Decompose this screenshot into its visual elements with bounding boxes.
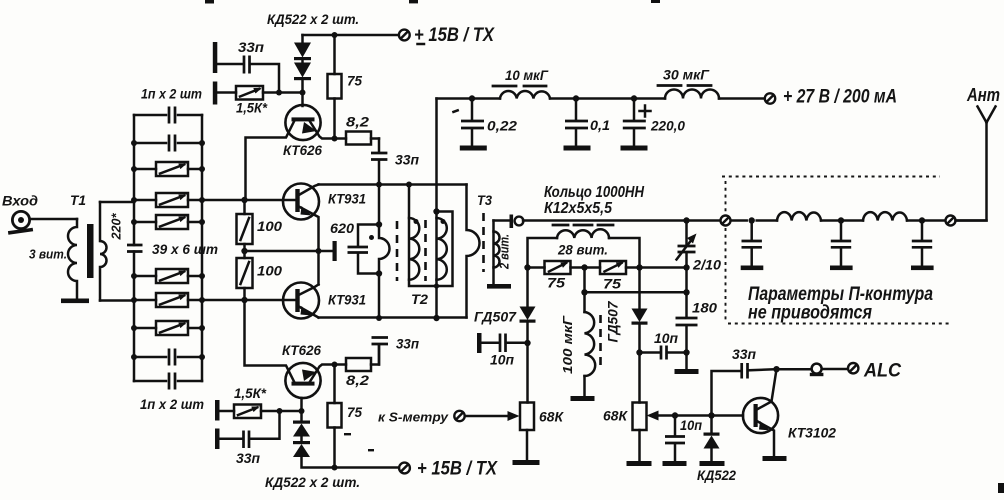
svg-text:33п: 33п (236, 451, 261, 466)
transformer T3 secondary 2 вит. (492, 221, 495, 284)
resistor 100 upper (243, 200, 246, 214)
dashed border P-network left (725, 181, 727, 320)
node dot collector КТ626 top (332, 136, 338, 142)
svg-text:0,1: 0,1 (590, 118, 610, 133)
diode VD4 КД522 bottom (300, 437, 303, 442)
svg-text:КТ3102: КТ3102 (788, 426, 836, 441)
node dots at КТ626 base (276, 90, 282, 96)
capacitor 620 (358, 225, 379, 247)
capacitor 10п (base to ground) (672, 412, 678, 418)
stub terminal bar top-left 2 (213, 82, 218, 105)
svg-text:220*: 220* (110, 212, 124, 240)
junction dots on bank rails (131, 140, 205, 360)
capacitor 220* in left rail (127, 245, 143, 252)
trimmer resistor bank row 6 (134, 275, 202, 278)
scan speck marks (409, 0, 418, 3)
resistor 75 bottom (333, 365, 336, 404)
capacitor bank row 10 (1п) (134, 380, 202, 383)
choke L1 10 мкГ (500, 91, 550, 98)
svg-text:Вход: Вход (2, 193, 38, 209)
terminal +27V (765, 93, 775, 103)
diode VD3 КД522 bottom (300, 411, 303, 421)
trimmer resistor 75 left (528, 266, 545, 269)
dashed border P-network top (722, 176, 940, 178)
collector rail bottom (319, 316, 467, 319)
node dot collector КТ626 bottom (332, 362, 338, 368)
svg-text:КД522 x 2 шт.: КД522 x 2 шт. (267, 11, 359, 27)
svg-text:1,5К*: 1,5К* (234, 386, 267, 401)
svg-text:1п x 2 шт: 1п x 2 шт (141, 87, 202, 102)
svg-text:+ 15В / TX: + 15В / TX (414, 25, 495, 46)
connector at T3 output (510, 215, 514, 229)
connector XW1 input socket (8, 211, 33, 234)
connector pin ALC (812, 364, 822, 374)
svg-text:33п: 33п (396, 337, 420, 352)
diode VD5 ГД507 left (526, 268, 529, 308)
svg-text:ГД507: ГД507 (606, 300, 621, 343)
svg-text:Т1: Т1 (70, 192, 86, 208)
capacitor 33п ALC (712, 371, 741, 416)
collector rail top (319, 183, 467, 186)
svg-text:75: 75 (547, 276, 566, 291)
svg-text:100: 100 (257, 264, 283, 279)
capacitor bank row 1 (1п) (134, 114, 202, 117)
scan mark top edge (205, 0, 214, 4)
suppressor winding 28 вит. with 75 trimmers (528, 238, 558, 268)
wire input to T1 (30, 218, 77, 221)
svg-text:КТ626: КТ626 (282, 343, 321, 358)
transformer T1 secondary winding (100, 202, 107, 301)
trimmer capacitor 2/10 (683, 217, 689, 223)
svg-text:75: 75 (347, 74, 362, 89)
wire T1 secondary to capacitor bank (100, 202, 134, 301)
resistor 100 lower (243, 244, 246, 258)
transistor VT4 КТ626 bottom (285, 363, 320, 398)
svg-text:3 вит.: 3 вит. (29, 247, 67, 262)
svg-text:Кольцо 1000НН: Кольцо 1000НН (544, 184, 644, 201)
resistor 75 top (333, 35, 336, 74)
svg-text:Т3: Т3 (477, 192, 492, 208)
capacitor C2 P-network (838, 217, 844, 223)
capacitor 10п (diode to 180 node) (636, 349, 642, 355)
transistor VT5 КТ3102 (743, 398, 778, 433)
potentiometer 68К left (526, 343, 529, 403)
wiper arrow into 68К right (657, 414, 743, 417)
diode VD2 КД522 top (301, 60, 304, 63)
svg-text:10п: 10п (490, 353, 515, 368)
diode VD7 КД522 right (708, 412, 714, 418)
capacitor 180 (685, 268, 688, 318)
svg-text:33п: 33п (732, 347, 757, 362)
capacitor 33п (rail to node) bottom (372, 338, 389, 345)
capacitor 220,0 polarized (631, 95, 637, 101)
svg-text:28 вит.: 28 вит. (557, 243, 608, 258)
wire to antenna (956, 123, 987, 221)
svg-text:100 мкГ: 100 мкГ (560, 315, 575, 374)
svg-text:33п: 33п (238, 40, 265, 55)
wire middle link (581, 289, 587, 295)
svg-text:8,2: 8,2 (346, 115, 370, 130)
svg-text:68К: 68К (539, 410, 565, 425)
capacitor bank row 2 (1п) (134, 142, 202, 145)
svg-text:33п: 33п (395, 153, 420, 168)
svg-text:КТ931: КТ931 (328, 192, 366, 207)
svg-text:10 мкГ: 10 мкГ (505, 68, 549, 83)
svg-text:К12х5х5,5: К12х5х5,5 (544, 200, 613, 217)
wire to +15V bottom rail (302, 457, 400, 468)
transformer T1 core (87, 224, 94, 278)
transistor VT1 КТ626 top (285, 105, 320, 140)
stub terminal bar bottom-left 1 (215, 400, 220, 421)
svg-text:2 вит.: 2 вит. (497, 234, 512, 270)
svg-text:Ант: Ант (966, 85, 1000, 105)
resistor 8,2 top (346, 132, 371, 145)
ground under T1 (61, 299, 89, 304)
transformer T2 link winding (1 turn) (379, 185, 390, 319)
svg-text:КД522 x 2 шт.: КД522 x 2 шт. (265, 474, 360, 490)
wire diode chain to node (301, 80, 304, 106)
capacitor 10п left (482, 342, 500, 345)
svg-text:10п: 10п (654, 331, 679, 346)
diode VD1 КД522 top (301, 35, 304, 43)
svg-text:30 мкГ: 30 мкГ (663, 68, 710, 83)
capacitor 0,22 (469, 95, 475, 101)
dashed border P-network bottom (728, 323, 950, 325)
ground under T3 (487, 284, 511, 289)
terminal +15V TX top (303, 34, 399, 37)
terminal +15V TX bottom (399, 463, 410, 474)
choke L2 30 мкГ (665, 90, 719, 99)
transformer T2 primary left half (409, 185, 453, 287)
transistor VT2 КТ931 top (283, 184, 319, 220)
scan mark bottom right (998, 483, 1004, 493)
node dot ALC (773, 366, 779, 372)
svg-text:ГД507: ГД507 (474, 310, 518, 325)
trimmer resistor 1,5К* bottom (220, 410, 235, 413)
svg-text:39 x 6 шт: 39 x 6 шт (152, 242, 218, 257)
junction dots suppressor (524, 264, 530, 270)
capacitor C1 P-network (749, 217, 755, 223)
svg-text:1п x 2 шт: 1п x 2 шт (140, 397, 204, 412)
svg-text:КТ931: КТ931 (328, 293, 366, 308)
transformer T1 primary winding 3 вит. (68, 219, 77, 299)
diode VD6 ГД507 right (638, 268, 641, 310)
svg-text:+ 27 В / 200 мА: + 27 В / 200 мА (783, 87, 897, 108)
capacitor C3 P-network (919, 217, 925, 223)
svg-text:1,5К*: 1,5К* (236, 101, 268, 116)
node dots base rail (241, 197, 247, 203)
capacitor 33п bottom-left (220, 438, 243, 441)
dashed core T2 left (396, 221, 399, 281)
dashed core T3 (482, 213, 485, 272)
trimmer resistor bank row 7 (134, 299, 202, 302)
svg-text:10п: 10п (680, 418, 703, 433)
svg-text:68К: 68К (603, 409, 629, 424)
stub terminal bar bottom-left 2 (215, 429, 220, 450)
svg-text:620: 620 (330, 221, 355, 236)
trimmer resistor bank row 5 (134, 221, 202, 224)
svg-text:не приводятся: не приводятся (748, 303, 872, 324)
P-network terminal left (721, 216, 731, 226)
stub terminal bar top-left 1 (213, 42, 218, 73)
svg-text:180: 180 (692, 301, 718, 316)
inductor L3 P-network (777, 212, 821, 220)
trimmer resistor bank row 3 (134, 168, 202, 171)
wire bank right rail (201, 115, 204, 381)
wire bank left rail (133, 115, 136, 381)
svg-text:КТ626: КТ626 (283, 143, 322, 158)
svg-text:+ 15В / TX: + 15В / TX (417, 459, 498, 480)
svg-text:к S-метру: к S-метру (378, 410, 449, 425)
trimmer resistor bank row 8 (134, 327, 202, 330)
capacitor 33п (collector to rail) top (378, 139, 381, 153)
capacitor 0,1 (573, 95, 579, 101)
transformer T2 primary right half and +27V feed line (435, 99, 438, 319)
wire emitter junction to link tap (245, 250, 334, 253)
svg-text:КД522: КД522 (697, 467, 736, 483)
P-network terminal right (946, 216, 956, 226)
resistor 8,2 bottom (346, 358, 371, 371)
stub terminal bar at 10п left (477, 333, 482, 353)
dashed core T2 middle (424, 220, 427, 281)
transistor VT3 КТ931 bottom (283, 283, 319, 319)
trimmer resistor 1,5К* top (217, 91, 236, 94)
svg-text:100: 100 (257, 219, 283, 234)
dashed core 100 мкГ (599, 315, 602, 368)
antenna symbol (978, 107, 996, 123)
ferrite ring dashed bar (553, 224, 613, 227)
potentiometer 68К right (633, 403, 647, 431)
wire to ALC connector (777, 368, 811, 371)
svg-text:ALC: ALC (863, 361, 901, 382)
main output line (523, 219, 987, 222)
svg-text:2/10: 2/10 (692, 258, 722, 273)
transformer T3 link winding (1 turn) (467, 185, 480, 318)
svg-text:75: 75 (603, 277, 622, 292)
choke 100 мкГ (583, 268, 586, 313)
svg-text:0,22: 0,22 (487, 119, 518, 134)
tap bar at T2 link (333, 241, 337, 261)
node dots at КТ626 bottom base (277, 408, 283, 414)
svg-text:Т2: Т2 (411, 291, 428, 307)
capacitor bank row 9 (1п) (134, 356, 202, 359)
trimmer resistor bank row 4 (134, 199, 202, 202)
inductor L4 P-network (863, 212, 907, 220)
trimmer resistor 75 right (600, 261, 626, 274)
svg-text:75: 75 (347, 405, 362, 420)
svg-text:220,0: 220,0 (650, 119, 685, 134)
+27V filter rail (437, 97, 765, 100)
svg-text:8,2: 8,2 (346, 373, 370, 388)
capacitor 33п top-left (217, 63, 243, 66)
terminal ALC (848, 363, 858, 373)
